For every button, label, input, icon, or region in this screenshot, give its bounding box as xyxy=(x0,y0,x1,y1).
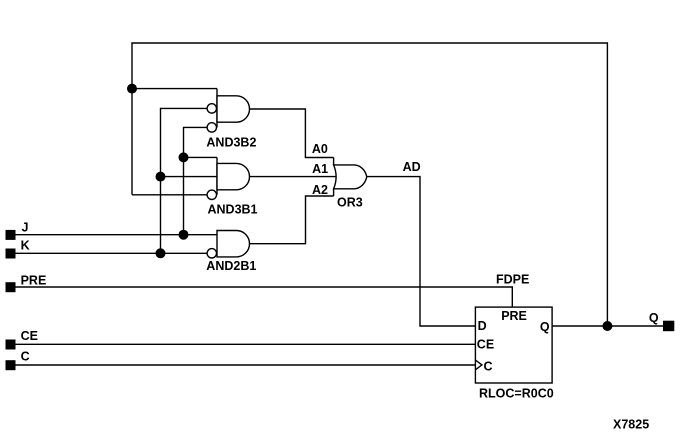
svg-text:D: D xyxy=(478,319,487,333)
svg-text:FDPE: FDPE xyxy=(496,272,529,286)
svg-text:RLOC=R0C0: RLOC=R0C0 xyxy=(479,387,554,401)
svg-text:OR3: OR3 xyxy=(337,196,363,210)
svg-text:AND3B2: AND3B2 xyxy=(206,135,256,149)
svg-text:AND3B1: AND3B1 xyxy=(208,202,258,216)
svg-text:Q: Q xyxy=(649,311,659,325)
svg-text:CE: CE xyxy=(477,337,494,351)
svg-text:PRE: PRE xyxy=(501,309,527,323)
svg-text:K: K xyxy=(21,239,30,253)
svg-text:Q: Q xyxy=(540,320,550,334)
svg-text:A2: A2 xyxy=(312,183,328,197)
svg-text:C: C xyxy=(21,350,30,364)
svg-text:X7825: X7825 xyxy=(613,418,649,432)
svg-text:J: J xyxy=(22,220,29,234)
svg-text:CE: CE xyxy=(21,329,38,343)
svg-text:PRE: PRE xyxy=(21,273,47,287)
svg-text:C: C xyxy=(484,359,493,373)
svg-text:A1: A1 xyxy=(312,162,328,176)
svg-text:A0: A0 xyxy=(312,142,328,156)
svg-text:AND2B1: AND2B1 xyxy=(206,259,256,273)
svg-text:AD: AD xyxy=(403,160,421,174)
